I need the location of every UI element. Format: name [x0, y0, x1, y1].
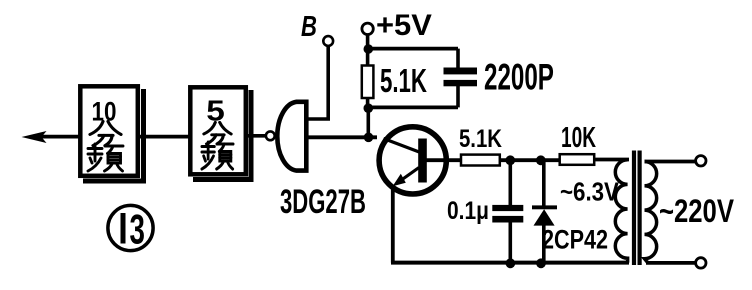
wire diode D1 top lead [542, 160, 546, 206]
wire resistor bottom [366, 98, 370, 110]
svg-text:0.1μ: 0.1μ [447, 196, 489, 224]
svg-text:~6.3V: ~6.3V [560, 178, 619, 207]
svg-text:10K: 10K [561, 122, 596, 154]
wire junction vertical to base [366, 108, 370, 139]
terminal secondary bottom [696, 258, 706, 268]
wire capacitor C2 bottom lead [508, 222, 512, 263]
divider block U3 5分频 [190, 87, 253, 182]
gate output bubble [266, 131, 275, 140]
label D1 2CP42 [542, 225, 608, 255]
wire capacitor C2 top lead [508, 160, 512, 206]
transformer T1 secondary winding [645, 162, 657, 263]
wire divider to gate bubble [247, 134, 266, 138]
label B [301, 11, 317, 43]
label C1 2200P [484, 56, 554, 97]
wire secondary bottom lead [646, 261, 695, 265]
resistor R3 10K [560, 154, 595, 165]
svg-text:2200P: 2200P [484, 56, 554, 97]
transformer T1 core [632, 151, 636, 266]
label +5V [376, 8, 433, 41]
diode D1 2CP42 [532, 205, 557, 209]
wire gate lower input / base wire [306, 135, 377, 139]
node collector rail C2 [505, 155, 515, 165]
transformer T1 primary winding [615, 160, 627, 263]
svg-text:5.1K: 5.1K [380, 63, 428, 99]
svg-text:3DG27B: 3DG27B [280, 183, 366, 221]
svg-text:~220V: ~220V [659, 194, 735, 229]
wire bottom rail [368, 106, 458, 110]
output arrow [22, 131, 47, 143]
wire gate upper input to B [306, 46, 328, 119]
wire +5V vertical [366, 34, 370, 66]
node base junction [364, 133, 374, 143]
wire top rail [368, 47, 458, 51]
wire 10K to transformer [594, 158, 629, 162]
node bottom rail junction [364, 103, 374, 113]
capacitor C2 0.1u [492, 205, 523, 211]
label R1 5.1K [380, 63, 428, 99]
wire output lead [41, 135, 80, 139]
label ~220V [659, 194, 735, 229]
node bottom rail C2 [506, 258, 516, 268]
label C2 0.1u [447, 196, 489, 224]
svg-text:3: 3 [130, 206, 145, 253]
terminal +5V [362, 23, 373, 34]
resistor R1 5.1K [362, 66, 374, 99]
terminal secondary top [696, 156, 706, 166]
node top rail junction [364, 44, 374, 54]
gate U1 [277, 102, 306, 171]
label Q1 3DG27B [280, 183, 366, 221]
terminal B [323, 36, 333, 46]
svg-text:2CP42: 2CP42 [542, 225, 608, 255]
node bottom rail D1 [536, 258, 546, 268]
transistor Q1 [379, 127, 461, 194]
svg-text:B: B [301, 11, 317, 43]
resistor R2 5.1K [461, 155, 500, 166]
node collector rail D1 [536, 155, 546, 165]
svg-text:+5V: +5V [376, 8, 433, 41]
wire capacitor C1 bottom lead [456, 86, 460, 108]
wire emitter vertical [391, 186, 395, 263]
wire diode D1 bottom lead [542, 225, 546, 263]
label R3 10K [561, 122, 596, 154]
figure number 13 [108, 205, 153, 253]
svg-text:5.1K: 5.1K [459, 124, 502, 153]
divider block U2 10分频 [80, 86, 146, 183]
wire between divider blocks [140, 135, 191, 139]
wire collector rail [500, 158, 560, 162]
wire secondary top lead [645, 160, 696, 164]
capacitor C1 2200P [444, 68, 478, 75]
wire capacitor C1 top lead [456, 49, 460, 69]
wire bottom rail [391, 261, 629, 265]
label ~6.3V [560, 178, 619, 207]
label R2 5.1K [459, 124, 502, 153]
